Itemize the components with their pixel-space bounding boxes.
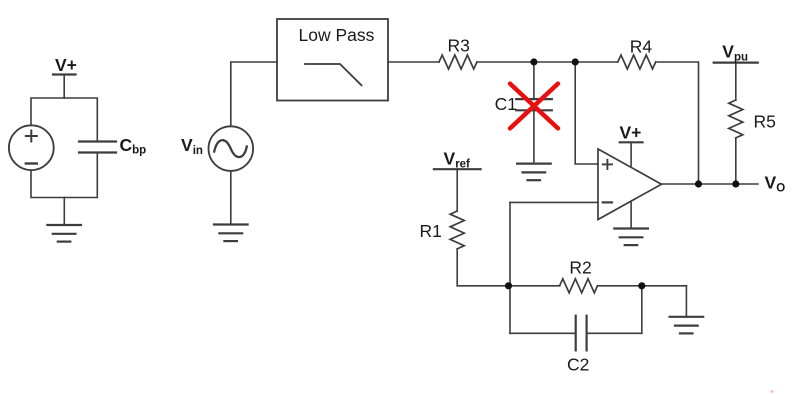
svg-text:Cbp: Cbp bbox=[120, 135, 147, 157]
svg-text:Vpu: Vpu bbox=[722, 42, 748, 64]
svg-text:Vref: Vref bbox=[444, 149, 471, 171]
svg-text:C2: C2 bbox=[567, 355, 589, 375]
svg-text:R2: R2 bbox=[569, 258, 591, 278]
svg-text:VO: VO bbox=[765, 173, 786, 195]
svg-text:C1: C1 bbox=[495, 94, 517, 114]
svg-text:V+: V+ bbox=[55, 55, 77, 75]
svg-text:V+: V+ bbox=[620, 123, 642, 143]
svg-text:R3: R3 bbox=[448, 36, 470, 56]
svg-text:Vin: Vin bbox=[181, 135, 203, 157]
svg-text:R1: R1 bbox=[420, 221, 442, 241]
svg-text:R4: R4 bbox=[630, 37, 653, 57]
svg-text:Low Pass: Low Pass bbox=[299, 25, 375, 45]
svg-text:R5: R5 bbox=[754, 112, 776, 132]
